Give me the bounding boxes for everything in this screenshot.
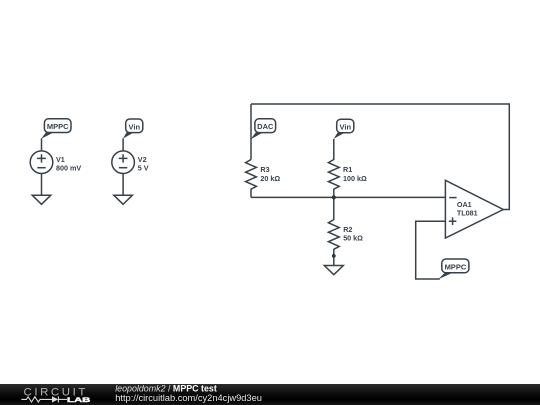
svg-text:Vin: Vin <box>129 122 141 131</box>
svg-text:R3: R3 <box>260 165 269 174</box>
svg-text:50 kΩ: 50 kΩ <box>343 234 363 243</box>
svg-text:DAC: DAC <box>257 122 274 131</box>
svg-text:leopoldomk2 / MPPC test: leopoldomk2 / MPPC test <box>115 384 217 394</box>
svg-text:800 mV: 800 mV <box>56 163 81 172</box>
svg-text:http://circuitlab.com/cy2n4cjw: http://circuitlab.com/cy2n4cjw9d3eu <box>115 393 262 403</box>
svg-text:LAB: LAB <box>67 397 91 404</box>
svg-text:R2: R2 <box>343 225 352 234</box>
svg-text:Vin: Vin <box>340 122 352 131</box>
svg-text:TL081: TL081 <box>457 209 478 218</box>
svg-text:20 kΩ: 20 kΩ <box>260 174 280 183</box>
svg-text:R1: R1 <box>343 165 352 174</box>
svg-text:100 kΩ: 100 kΩ <box>343 174 367 183</box>
svg-text:MPPC: MPPC <box>445 263 467 272</box>
svg-text:MPPC: MPPC <box>47 122 69 131</box>
svg-text:5 V: 5 V <box>138 163 149 172</box>
